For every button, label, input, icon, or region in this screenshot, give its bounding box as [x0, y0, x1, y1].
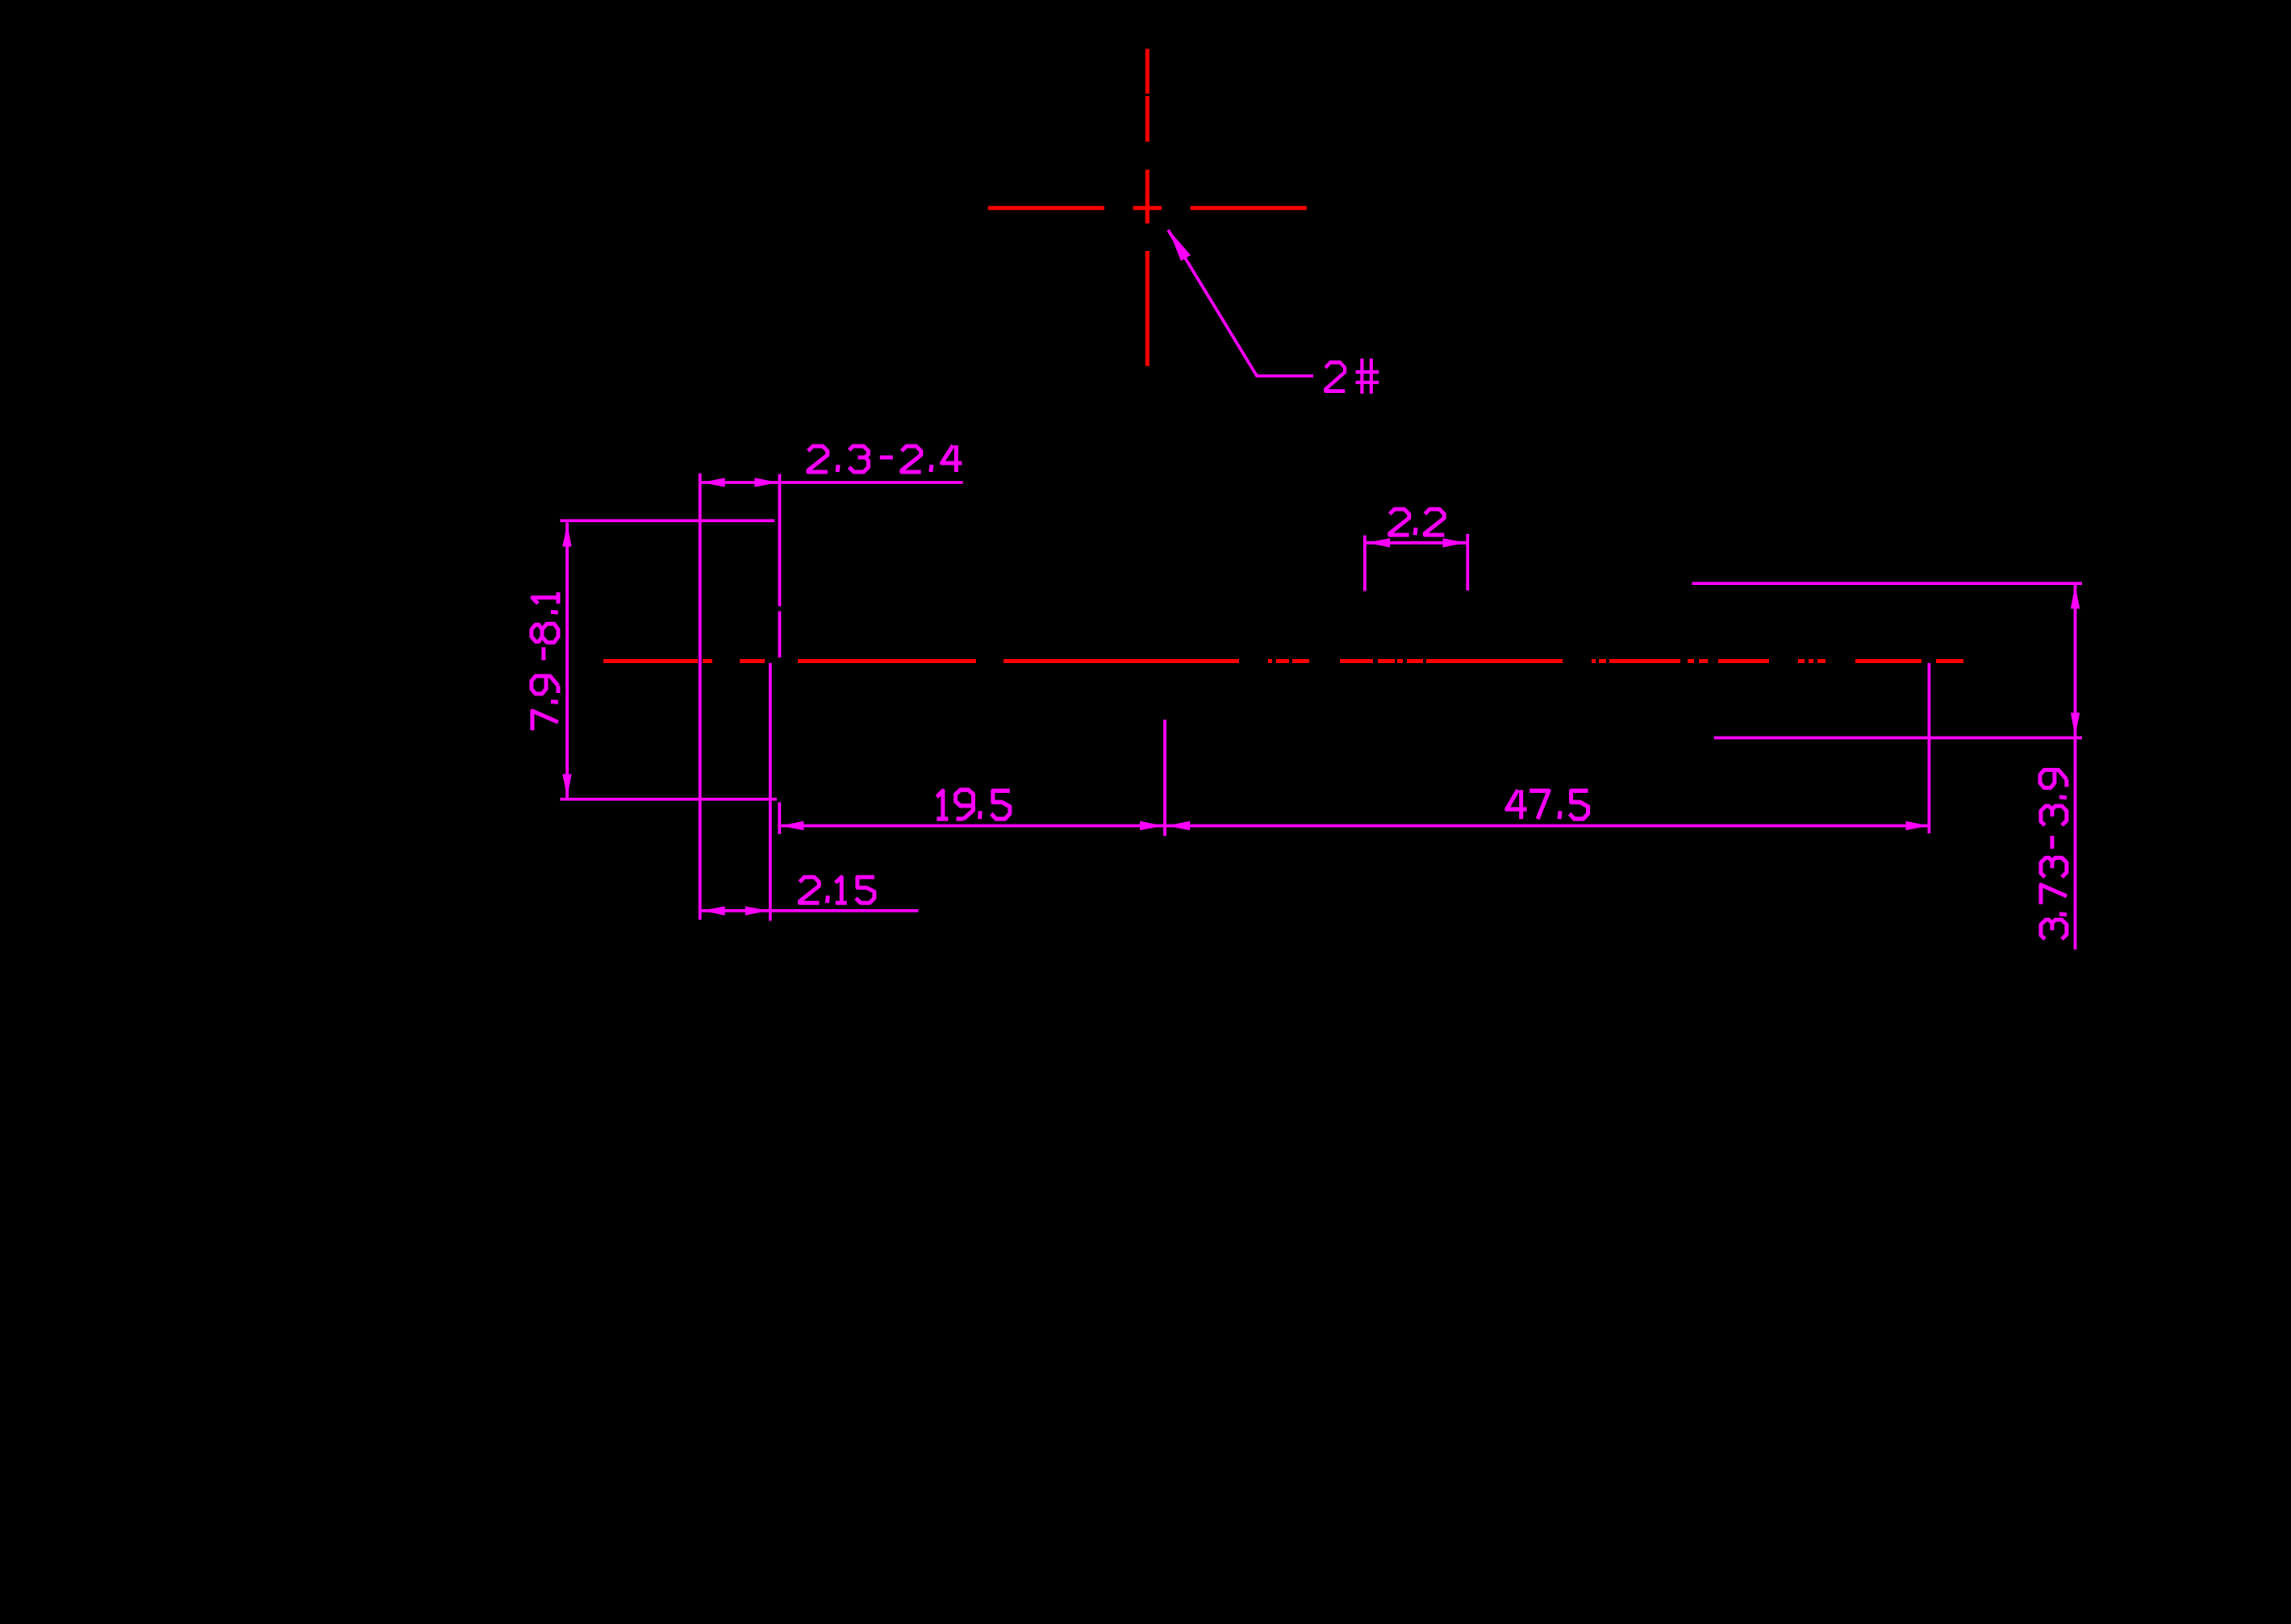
- dimension 3.73-3.9: value text (rotated): [2040, 770, 2067, 939]
- top right horizontal edge line: [1692, 582, 2083, 585]
- extension line (47.5 right): [1927, 663, 1930, 833]
- dimension 2.15: value text: [799, 877, 874, 903]
- dimension 7.9-8.1: dimension line with arrows: [562, 523, 571, 799]
- dimension 2.2: extension lines: [1365, 534, 1467, 591]
- bottom right horizontal edge line: [1714, 737, 2082, 740]
- dimension 47.5: value text: [1507, 790, 1588, 819]
- dimension 19.5: value text: [937, 790, 1010, 819]
- extension line right upper (groove right edge 2.3-2.4): [778, 474, 782, 658]
- dimension 7.9-8.1: extension lines: [560, 520, 777, 799]
- dimension 2.3-2.4: dimension line with arrows: [700, 478, 963, 486]
- extension line short (19.5 left): [778, 802, 781, 834]
- dimension 2.2: value text: [1390, 509, 1445, 535]
- dimension divider tick at 19.5/47.5: [1163, 720, 1166, 836]
- dimension 2.2: dimension line with arrows: [1367, 538, 1467, 547]
- extension line left (groove left edge): [699, 474, 702, 920]
- dimension 3.73-3.9: dimension line with arrows: [2071, 583, 2080, 950]
- label text 2#: [1325, 359, 1379, 394]
- red main horizontal centerline of shaft: [603, 659, 1963, 663]
- dimension 7.9-8.1: value text (rotated): [532, 592, 558, 730]
- dimension 19.5 / 47.5: shared dimension line: [780, 821, 1929, 830]
- dimension 2.15: dimension line with arrows: [700, 906, 919, 915]
- dimension 2.3-2.4: value text: [808, 445, 962, 472]
- red horizontal centerline of crosshair: [988, 206, 1307, 210]
- extension line right lower (groove right edge 2.15): [769, 663, 772, 921]
- red vertical centerline of crosshair: [1145, 49, 1150, 366]
- red crosshair centerline (top view center mark): [1133, 194, 1162, 223]
- leader arrow to 2#: [1168, 230, 1313, 376]
